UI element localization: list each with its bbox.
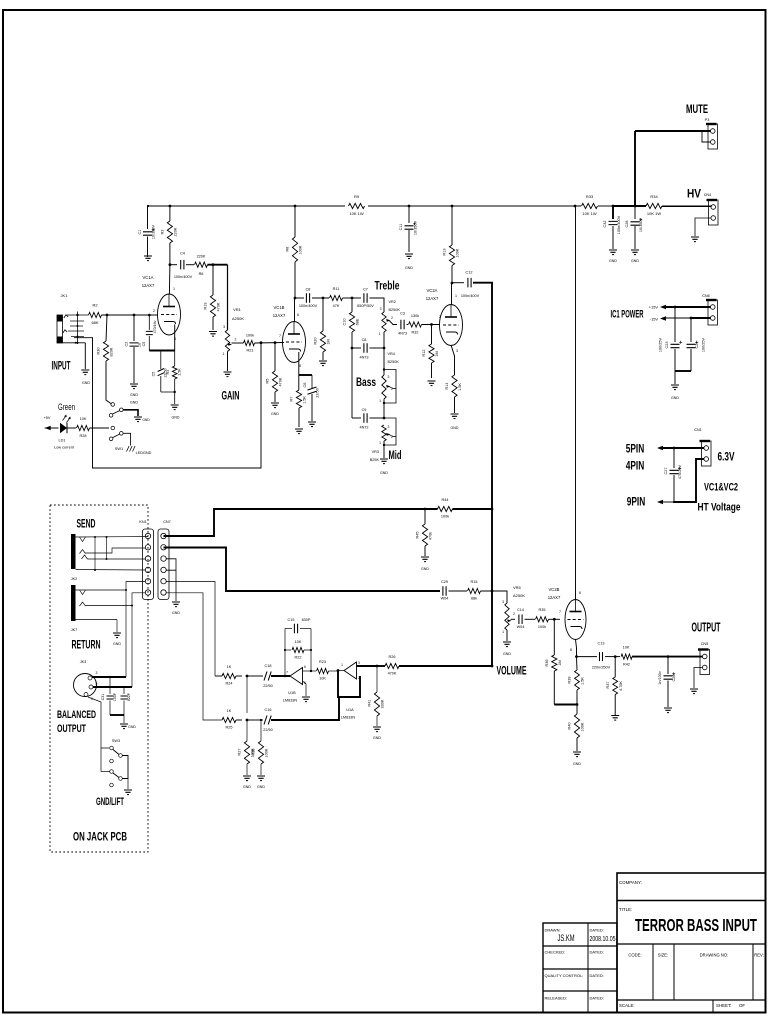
- svg-text:1M: 1M: [327, 339, 331, 344]
- node R37b node: [614, 655, 617, 658]
- svg-text:C9: C9: [362, 408, 367, 412]
- wire VC1A cathode: [149, 325, 174, 351]
- svg-text:CHECKED:: CHECKED:: [545, 950, 566, 955]
- svg-text:+5V: +5V: [44, 416, 51, 420]
- svg-text:R4: R4: [166, 370, 170, 375]
- label 4PIN: [626, 459, 645, 473]
- svg-text:R11: R11: [333, 287, 340, 291]
- svg-text:9PIN: 9PIN: [627, 495, 646, 509]
- wire CN7 pin3-4 bracket: [166, 559, 176, 601]
- resistor R20: [314, 297, 331, 360]
- svg-text:220n/250V: 220n/250V: [592, 666, 611, 670]
- wire U1B pin5 gnd: [303, 681, 307, 696]
- svg-text:1M: 1M: [558, 660, 562, 665]
- svg-text:12AX7: 12AX7: [426, 296, 439, 301]
- svg-text:R36: R36: [545, 660, 549, 667]
- svg-text:3: 3: [380, 307, 382, 311]
- svg-text:10K: 10K: [319, 677, 326, 681]
- capacitor C29: [441, 580, 449, 601]
- resistor R13: [443, 206, 460, 283]
- svg-text:C32: C32: [603, 221, 607, 228]
- svg-text:U1B: U1B: [288, 691, 296, 695]
- svg-text:CN1: CN1: [694, 428, 702, 432]
- svg-text:MUTE: MUTE: [686, 102, 708, 116]
- svg-text:VC2B: VC2B: [549, 587, 560, 592]
- svg-text:3: 3: [456, 349, 458, 353]
- wire C23C24 join: [675, 371, 691, 384]
- svg-text:C8: C8: [362, 338, 367, 342]
- svg-text:3: 3: [388, 425, 390, 429]
- svg-text:C27: C27: [664, 468, 668, 475]
- svg-text:1: 1: [223, 352, 225, 356]
- resistor R5: [266, 343, 283, 402]
- op-amp U1A: [341, 661, 360, 720]
- label plus5V: [44, 416, 51, 420]
- wire C12 to bus: [473, 283, 492, 508]
- wire JK1 gnd wire: [84, 343, 86, 369]
- svg-text:C16: C16: [265, 708, 272, 712]
- resistor R40: [568, 705, 585, 752]
- resistor R24: [215, 665, 242, 686]
- ground R20 gnd: [319, 361, 327, 366]
- svg-text:100K: 100K: [581, 722, 585, 731]
- wire SW1 gnd bracket: [123, 410, 138, 416]
- svg-text:5PIN: 5PIN: [626, 442, 645, 456]
- ground CN7 gnd: [172, 602, 180, 615]
- svg-text:VR4: VR4: [388, 352, 395, 356]
- wire U1B fb verticals: [284, 629, 312, 678]
- ground IC1 gnd: [671, 385, 679, 400]
- label BALANCED: [57, 709, 96, 721]
- approvals checked label: [545, 950, 566, 955]
- resistor R3: [160, 206, 177, 265]
- ground C26 gnd: [664, 708, 672, 713]
- node VC1B grid-leak node: [274, 341, 277, 344]
- pot VR4: [379, 352, 399, 404]
- svg-text:10K 1W: 10K 1W: [647, 211, 661, 216]
- wire SW1 ledgnd bracket: [123, 433, 130, 445]
- svg-text:R34: R34: [650, 194, 658, 199]
- svg-text:68k: 68k: [471, 597, 477, 601]
- wire +15V wire: [666, 306, 711, 308]
- node send bus R45 node: [424, 508, 427, 511]
- svg-text:100P: 100P: [113, 692, 117, 701]
- wire return bus: [164, 548, 441, 592]
- svg-text:GND: GND: [271, 412, 279, 416]
- svg-text:C28: C28: [625, 221, 629, 228]
- jack JK1: [57, 293, 89, 344]
- svg-text:1.5K: 1.5K: [458, 383, 462, 391]
- wire treble bottom to bass: [383, 332, 385, 375]
- svg-text:R25: R25: [226, 726, 233, 730]
- ground R14 gnd: [451, 414, 459, 430]
- svg-text:3: 3: [502, 600, 504, 604]
- svg-text:Bass: Bass: [356, 375, 376, 389]
- node VC2A grid node: [430, 323, 433, 326]
- svg-text:A250K: A250K: [513, 593, 525, 598]
- resistor R19: [204, 265, 221, 330]
- svg-text:8: 8: [299, 364, 301, 368]
- resistor R28: [66, 417, 109, 438]
- wire VC2A plate wire: [451, 283, 453, 305]
- wire R6 to VR1: [208, 263, 228, 330]
- svg-text:100k: 100k: [246, 334, 254, 338]
- svg-text:R39: R39: [568, 677, 572, 684]
- svg-text:470K: 470K: [217, 302, 221, 311]
- svg-text:DRAWN:: DRAWN:: [545, 928, 561, 933]
- svg-text:QUALITY CONTROL:: QUALITY CONTROL:: [545, 973, 584, 978]
- svg-text:RELEASED:: RELEASED:: [545, 996, 567, 1001]
- capacitor C12: [452, 271, 480, 299]
- svg-text:Mid: Mid: [389, 448, 402, 462]
- capacitor C11: [399, 206, 418, 252]
- svg-text:100K: 100K: [456, 248, 460, 257]
- svg-text:22/50: 22/50: [316, 388, 320, 398]
- arrow 9pin arrow: [657, 500, 663, 505]
- svg-text:470/25V: 470/25V: [678, 464, 682, 479]
- approvals quality label: [545, 973, 584, 978]
- svg-text:2: 2: [439, 315, 441, 319]
- svg-text:C26: C26: [672, 675, 676, 682]
- svg-text:12AX7: 12AX7: [548, 595, 561, 600]
- svg-text:U1A: U1A: [346, 708, 354, 712]
- ground VR3 gnd: [380, 459, 388, 475]
- node VC1B mute node: [260, 341, 263, 344]
- svg-text:SIZE:: SIZE:: [658, 953, 668, 958]
- svg-text:TITLE:: TITLE:: [619, 907, 632, 912]
- wire B+ rail: [148, 205, 712, 207]
- ground R41 gnd: [373, 727, 381, 740]
- ground SW1 gnd: [130, 401, 150, 422]
- label Green: [58, 402, 75, 412]
- resistor R8: [286, 206, 303, 298]
- svg-text:GND: GND: [671, 396, 679, 400]
- label MUTE: [686, 102, 708, 116]
- wire JK2 sleeve gnd: [116, 620, 118, 633]
- ground SW3 gnd: [124, 790, 132, 795]
- svg-text:8: 8: [570, 648, 572, 652]
- svg-text:6.3V: 6.3V: [718, 450, 735, 464]
- label HV: [687, 187, 702, 201]
- svg-text:VC1B: VC1B: [274, 305, 285, 310]
- wire R15 to volume: [481, 591, 508, 603]
- connector CN4: [704, 193, 718, 225]
- svg-text:GND: GND: [373, 736, 381, 740]
- connector P3: [705, 118, 718, 149]
- wire MUTE wire: [635, 131, 711, 206]
- capacitor C9: [352, 408, 384, 430]
- svg-text:GND: GND: [631, 259, 639, 263]
- wire VC2A cathode: [451, 345, 455, 375]
- svg-text:4N73: 4N73: [398, 332, 407, 336]
- svg-text:LM833N: LM833N: [283, 699, 298, 703]
- svg-text:3: 3: [96, 671, 98, 675]
- title block scale label: [619, 1003, 635, 1008]
- svg-text:470K: 470K: [279, 377, 283, 386]
- label Bass: [356, 375, 376, 389]
- svg-text:R44: R44: [442, 498, 449, 502]
- svg-text:R6: R6: [199, 272, 204, 276]
- svg-text:R40: R40: [568, 723, 572, 730]
- approvals drawn value JS.KM: [558, 933, 575, 943]
- capacitor C6: [303, 383, 320, 421]
- ground C11 gnd: [405, 254, 413, 270]
- title TERROR BASS INPUT: [635, 915, 757, 935]
- svg-text:1.5K: 1.5K: [178, 368, 182, 376]
- resistor R10: [343, 298, 360, 348]
- wire U1B in from R23: [303, 670, 317, 672]
- capacitor C15: [285, 618, 311, 633]
- wire VC2B cathode: [576, 640, 577, 657]
- svg-text:C2: C2: [125, 342, 129, 347]
- svg-text:C15: C15: [288, 618, 295, 622]
- capacitor C3: [398, 312, 407, 336]
- resistor R11: [312, 287, 343, 308]
- svg-text:7: 7: [559, 610, 561, 614]
- svg-text:CN4: CN4: [704, 193, 712, 197]
- wire xlr pin1 down: [88, 697, 109, 748]
- svg-text:R26: R26: [389, 655, 396, 659]
- node VC2A plate node: [451, 282, 454, 285]
- wire U1A fb loop: [338, 671, 360, 699]
- node rail-R8: [294, 205, 297, 208]
- svg-text:W04: W04: [517, 625, 525, 629]
- wire HV wire: [662, 206, 711, 208]
- ground C6 gnd: [308, 422, 316, 427]
- ground R7 gnd: [295, 429, 303, 434]
- approvals dated2 label: [590, 950, 604, 955]
- svg-text:Treble: Treble: [375, 279, 400, 293]
- svg-text:47K: 47K: [333, 304, 340, 308]
- resistor R22: [284, 640, 312, 660]
- svg-text:12AX7: 12AX7: [273, 313, 286, 318]
- wire VC2B plate wire: [575, 206, 577, 600]
- resistor R23: [317, 660, 339, 681]
- svg-text:6: 6: [304, 665, 306, 669]
- node R2 out: [106, 314, 109, 317]
- resistor R9: [349, 194, 365, 216]
- node -15 node: [690, 317, 693, 320]
- node rail-VC2B: [574, 205, 577, 208]
- node +15 node: [674, 306, 677, 309]
- svg-text:C11: C11: [399, 224, 403, 231]
- label +15V: [649, 305, 659, 310]
- svg-text:SHEET:: SHEET:: [716, 1003, 731, 1008]
- wire xlr cold: [93, 593, 146, 687]
- node C26 node: [667, 655, 670, 658]
- svg-text:GND: GND: [380, 471, 388, 475]
- resistor R25: [222, 709, 242, 730]
- wire VC1A grid wire: [151, 314, 158, 316]
- ground CN5 gnd: [690, 689, 698, 694]
- wire C18 to U1B out: [271, 675, 290, 677]
- node R26 in node: [376, 665, 379, 668]
- pot VR3: [370, 418, 396, 462]
- svg-text:C1: C1: [138, 230, 142, 235]
- svg-text:JK1: JK1: [61, 293, 69, 298]
- title block rev label: [754, 953, 764, 958]
- node U1A out node: [337, 669, 340, 672]
- capacitor C32: [603, 206, 621, 249]
- svg-text:GND: GND: [451, 426, 459, 430]
- node VC1B plate node: [294, 297, 297, 300]
- arrow 5pin arrow: [657, 446, 663, 451]
- wire output wire: [632, 656, 703, 658]
- svg-text:C4: C4: [180, 252, 185, 256]
- approvals dated4 label: [590, 996, 604, 1001]
- label GND/LIFT: [96, 796, 124, 808]
- capacitor C2A 470/16v: [142, 314, 157, 351]
- wire CN5 pin2 gnd: [694, 668, 703, 689]
- svg-text:100n/400V: 100n/400V: [299, 304, 318, 308]
- ground VC1A cathode gnd: [171, 405, 180, 420]
- svg-text:VC1&VC2: VC1&VC2: [704, 482, 738, 494]
- node bus-C12 node: [491, 508, 494, 511]
- ground C32 gnd: [609, 250, 617, 263]
- svg-text:HT Voltage: HT Voltage: [698, 502, 741, 514]
- svg-text:R28: R28: [80, 434, 87, 438]
- svg-text:BALANCED: BALANCED: [57, 709, 96, 721]
- svg-text:C5: C5: [152, 372, 156, 377]
- svg-text:R30: R30: [97, 348, 101, 355]
- svg-text:100n/400V: 100n/400V: [617, 215, 621, 234]
- svg-text:C24: C24: [695, 342, 699, 349]
- svg-text:R21: R21: [247, 349, 254, 353]
- svg-text:GND: GND: [609, 259, 617, 263]
- approvals table frame: [543, 923, 617, 1013]
- wire gnd stem VC1A: [174, 392, 176, 404]
- svg-text:GND: GND: [82, 381, 90, 385]
- svg-text:2: 2: [513, 612, 515, 616]
- connector CN7: [158, 520, 171, 600]
- svg-text:10K: 10K: [295, 640, 302, 644]
- svg-text:100k: 100k: [538, 625, 546, 629]
- svg-text:-15V: -15V: [650, 317, 659, 322]
- svg-text:1K: 1K: [227, 665, 232, 669]
- svg-text:GND/LIFT: GND/LIFT: [96, 796, 124, 808]
- svg-text:C12: C12: [466, 271, 473, 275]
- tube U VC2A: [426, 288, 463, 353]
- svg-text:C29: C29: [441, 580, 448, 584]
- label VC1&VC2: [704, 482, 738, 494]
- wire VC1B plate wire: [294, 298, 296, 322]
- wire 9pin wire: [663, 459, 704, 502]
- svg-text:C14: C14: [517, 608, 524, 612]
- ground VR5 gnd: [503, 642, 511, 656]
- svg-text:2: 2: [153, 309, 155, 313]
- svg-text:REV:: REV:: [754, 953, 764, 958]
- svg-text:GND: GND: [243, 785, 251, 789]
- node R25 out node: [246, 719, 249, 722]
- label SEND: [77, 517, 96, 531]
- label 9PIN: [627, 495, 646, 509]
- svg-text:GND: GND: [128, 725, 136, 729]
- jack PCB dashed box: [50, 505, 148, 852]
- svg-text:10K 1W: 10K 1W: [582, 211, 596, 216]
- resistor R34: [646, 194, 662, 216]
- svg-text:1.5K: 1.5K: [581, 677, 585, 685]
- svg-text:W04: W04: [441, 597, 449, 601]
- svg-text:VR3: VR3: [372, 450, 379, 454]
- svg-text:3: 3: [223, 325, 225, 329]
- approvals dated1 value: [590, 934, 616, 943]
- approvals drawn label: [545, 928, 561, 933]
- label HT Voltage: [698, 502, 741, 514]
- svg-text:C8: C8: [306, 288, 311, 292]
- svg-text:470/16v: 470/16v: [153, 320, 157, 333]
- svg-text:7: 7: [279, 334, 281, 338]
- node rail-C1: [147, 205, 149, 207]
- wire xlr hot: [92, 582, 146, 678]
- svg-text:R27: R27: [238, 749, 242, 756]
- svg-text:JS.KM: JS.KM: [558, 933, 575, 943]
- resistor R36: [545, 619, 562, 704]
- wire SW3 gnd link: [122, 756, 128, 790]
- node C27 bot node: [673, 501, 675, 503]
- svg-text:4N73: 4N73: [359, 356, 368, 360]
- svg-text:DATED:: DATED:: [590, 973, 604, 978]
- arrow -15V: [660, 316, 666, 321]
- connector CN5: [698, 642, 710, 675]
- resistor R41: [368, 666, 385, 726]
- ground R38 gnd: [257, 776, 265, 789]
- svg-text:GND: GND: [573, 762, 581, 766]
- svg-text:10K: 10K: [623, 646, 630, 650]
- svg-text:LD1: LD1: [59, 439, 66, 443]
- capacitor C1: [138, 206, 156, 257]
- ground U1B gnd: [302, 697, 310, 702]
- XLR JK3: [74, 660, 98, 701]
- svg-text:DATED:: DATED:: [590, 928, 604, 933]
- svg-text:SW1: SW1: [115, 446, 123, 451]
- svg-text:4.70K: 4.70K: [619, 681, 623, 691]
- svg-text:OF: OF: [739, 1003, 745, 1008]
- svg-text:R45: R45: [416, 532, 420, 539]
- svg-text:Green: Green: [58, 402, 75, 412]
- label JK7: [71, 628, 78, 632]
- svg-text:VC1A: VC1A: [143, 275, 154, 280]
- connector CN6: [702, 294, 717, 325]
- capacitor C18: [247, 664, 273, 688]
- svg-text:2008.10.05: 2008.10.05: [590, 934, 616, 943]
- wire R36 join R39: [554, 704, 577, 706]
- svg-text:22/50: 22/50: [263, 728, 273, 732]
- capacitor C27: [664, 448, 682, 502]
- title block code label: [628, 953, 641, 958]
- svg-text:C13: C13: [598, 642, 605, 646]
- capacitor C14: [517, 608, 525, 629]
- svg-text:R33: R33: [586, 194, 594, 199]
- wire U1A pin3 wire: [357, 665, 378, 667]
- svg-text:1.5K: 1.5K: [303, 396, 307, 404]
- svg-text:R5: R5: [266, 379, 270, 384]
- node C2 node: [133, 314, 136, 317]
- pot VR5 VOLUME: [502, 585, 525, 641]
- node C9 right node: [383, 417, 386, 420]
- label 5PIN: [626, 442, 645, 456]
- node bus bottom node: [491, 665, 494, 668]
- tube U VC1A: [142, 275, 181, 341]
- svg-text:GND: GND: [421, 567, 429, 571]
- ground R37 gnd: [611, 716, 619, 721]
- svg-text:VR5: VR5: [513, 585, 522, 590]
- svg-text:R8: R8: [286, 247, 290, 252]
- node C8b left node: [351, 347, 354, 350]
- capacitor C26: [658, 657, 676, 707]
- svg-text:GND: GND: [130, 401, 138, 405]
- node VC1A plate node: [169, 263, 172, 266]
- wire C16 to U1A loop: [271, 697, 339, 720]
